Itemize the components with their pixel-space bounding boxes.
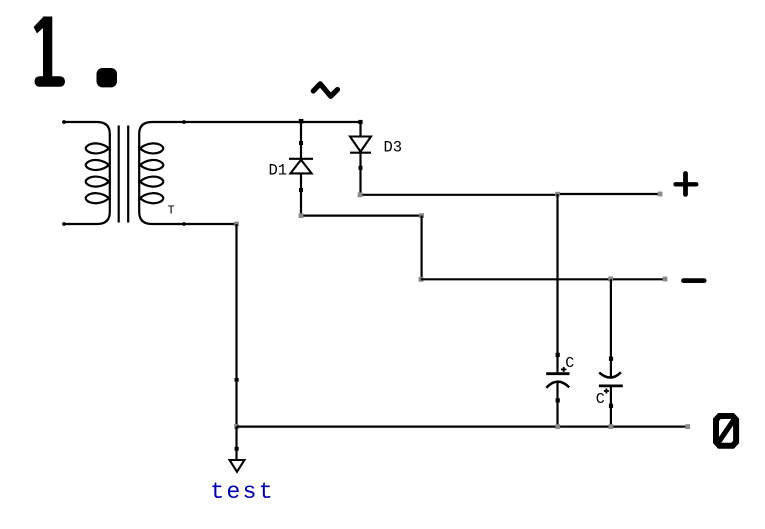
pin dot C1 bottom — [556, 398, 560, 402]
polarity + mark C1 — [561, 367, 567, 372]
gray endpoint square bottom rail — [685, 424, 690, 429]
gray corner square at transformer return — [234, 222, 239, 227]
svg-text:D1: D1 — [269, 162, 288, 180]
capacitor C2 — [599, 372, 623, 386]
wire capacitor C2 upper lead — [610, 279, 612, 377]
transformer T secondary winding — [139, 122, 184, 224]
node corner dot at D3 — [358, 120, 362, 124]
gray endpoint square plus rail — [658, 192, 663, 197]
gray corner square D3 bottom — [358, 192, 363, 197]
svg-text:C: C — [596, 391, 605, 408]
label - output — [684, 278, 705, 283]
pin dot on return net — [235, 378, 239, 382]
AC symbol ~ — [313, 84, 337, 97]
label + output — [676, 174, 697, 195]
wire transformer bottom lead to corner — [184, 223, 237, 225]
gray endpoint square minus rail — [663, 277, 668, 282]
wire vertical return net — [235, 224, 237, 427]
wire plus rail right segment — [557, 193, 660, 195]
svg-text:D3: D3 — [384, 139, 403, 157]
svg-text:test: test — [210, 479, 275, 505]
pin dot D1 top — [299, 141, 303, 145]
wire plus rail left segment — [361, 194, 558, 196]
gray corner square mid link right — [419, 213, 424, 218]
diode D1 — [289, 159, 313, 174]
gray junction square bottom rail / C1 — [555, 424, 560, 429]
svg-text:C: C — [565, 355, 574, 372]
svg-text:T: T — [168, 204, 175, 218]
wire mid link from D1 to corner — [301, 215, 422, 217]
wire minus rail — [421, 278, 665, 280]
transformer T core — [119, 126, 129, 223]
gray corner square D1 bottom — [299, 213, 304, 218]
transformer pin dots — [62, 120, 186, 226]
pin dot D3 bottom — [359, 166, 363, 170]
capacitor C1 — [546, 374, 569, 388]
wire capacitor C2 lower lead — [610, 386, 612, 427]
pin dot C1 top — [556, 353, 560, 357]
polarity + mark C2 — [604, 389, 609, 394]
wire D1 branch lower — [300, 173, 302, 215]
label "1." page number — [34, 17, 117, 88]
wire capacitor C1 lower lead — [556, 383, 558, 427]
wire vertical link down to minus rail — [421, 216, 423, 280]
wire D3 branch lower — [359, 153, 361, 195]
wire ground stem — [235, 427, 237, 460]
node junction dot at D1 tap — [299, 119, 304, 124]
gray junction square minus rail / C2 tap — [608, 277, 613, 282]
transformer T primary winding — [64, 122, 110, 224]
pin dot C2 top — [609, 357, 613, 361]
gray junction square plus rail / C tap — [555, 192, 560, 197]
wire top AC net from transformer to D3 — [184, 121, 361, 123]
gray junction square bottom rail / C2 — [609, 424, 614, 429]
ground arrow symbol — [230, 460, 245, 472]
gray corner square minus rail left — [419, 277, 424, 282]
pin dot C2 bottom — [609, 404, 613, 408]
wire D3 branch upper — [359, 122, 361, 136]
wire capacitor C1 upper lead — [556, 194, 558, 372]
pin dot D1 bottom — [299, 188, 303, 192]
diode D3 — [350, 137, 371, 153]
pin dot ground stem — [235, 447, 239, 451]
gray junction square bottom rail left — [234, 424, 239, 429]
wire D1 branch upper — [300, 122, 302, 159]
label 0 output — [716, 416, 736, 446]
wire bottom zero rail — [237, 426, 688, 428]
